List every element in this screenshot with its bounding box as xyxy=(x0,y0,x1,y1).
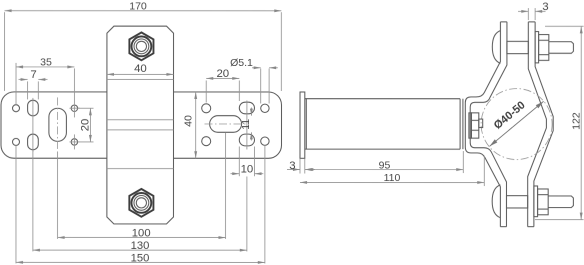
bolt bottom dome head xyxy=(492,185,500,218)
svg-text:40: 40 xyxy=(183,115,195,127)
screw at bracket washer xyxy=(469,113,472,138)
slot B bottom xyxy=(28,134,39,150)
svg-text:Ø40-50: Ø40-50 xyxy=(492,99,528,132)
dimension 40 right vertical xyxy=(182,92,195,158)
wire tube xyxy=(305,99,463,149)
wire strap right top end xyxy=(528,21,535,23)
hole D prime bottom xyxy=(202,137,211,146)
wire strap right bottom end xyxy=(528,226,534,228)
slot B top xyxy=(28,100,39,116)
svg-text:3: 3 xyxy=(542,1,548,13)
svg-text:170: 170 xyxy=(129,0,147,12)
svg-text:Ø5.1: Ø5.1 xyxy=(230,57,253,69)
hole D bottom circle xyxy=(69,134,79,149)
hole A top-left circle xyxy=(13,105,20,112)
nut bottom side view xyxy=(538,189,549,215)
dimension 110 xyxy=(300,156,484,187)
bolt top shaft end xyxy=(549,42,574,54)
svg-text:35: 35 xyxy=(40,56,52,68)
nut top hex xyxy=(129,32,153,60)
dimension 10 xyxy=(230,146,263,176)
dimension 100 xyxy=(58,227,226,239)
wire extension hole A prime to 150 dim xyxy=(264,145,266,263)
dimension 122 xyxy=(535,26,584,219)
dimension 150 xyxy=(16,252,265,264)
dimension 20 right xyxy=(206,68,239,102)
dimension 35 xyxy=(16,56,74,117)
nut top side view xyxy=(539,35,549,61)
svg-text:130: 130 xyxy=(131,240,150,252)
svg-text:20: 20 xyxy=(216,68,229,80)
wire clamp band upper edge across column xyxy=(107,119,174,121)
dimension 95 xyxy=(306,151,463,173)
hole D prime top xyxy=(202,104,211,113)
bolt top shaft xyxy=(507,41,528,53)
node C prime centerline horizontal xyxy=(205,123,248,125)
clamp strap right outer xyxy=(534,22,553,227)
slot B prime top xyxy=(239,102,254,114)
svg-text:3: 3 xyxy=(289,160,295,172)
dimension 3 top xyxy=(518,1,549,20)
wire extension slot B to 130 dim xyxy=(32,150,34,251)
bolt bottom shaft end xyxy=(548,196,573,208)
clamp strap left inner xyxy=(470,22,507,227)
node B prime centerline xyxy=(246,100,248,149)
dimension 11 xyxy=(240,107,252,140)
pipe circle dashed xyxy=(481,89,552,160)
clamp strap left outer xyxy=(465,22,500,227)
hole A bottom-left circle xyxy=(12,138,19,145)
wire extension slot C to 100 dim xyxy=(57,152,59,239)
dimension 40 column xyxy=(107,63,174,75)
svg-text:122: 122 xyxy=(570,112,582,130)
dimension diameter 5.1 xyxy=(230,57,278,104)
wire left view plate outline xyxy=(1,92,282,158)
node B centerline xyxy=(32,98,34,152)
svg-text:10: 10 xyxy=(241,163,254,175)
nut bottom hex xyxy=(129,189,153,217)
wire lower fold line across column xyxy=(107,168,174,170)
dimension diameter 40-50 leader xyxy=(489,99,543,146)
svg-text:7: 7 xyxy=(30,69,36,81)
dimension 170 xyxy=(5,0,282,91)
wire extension hole A to 150 dim xyxy=(15,145,17,263)
svg-text:40: 40 xyxy=(134,63,147,75)
washer top xyxy=(535,32,539,63)
slot B prime bottom xyxy=(239,134,254,146)
dimension 3 left xyxy=(287,158,315,173)
wire right view flange xyxy=(300,92,305,158)
wire central column xyxy=(107,26,174,224)
bolt bottom shaft xyxy=(506,196,527,208)
hole D top circle xyxy=(70,105,80,111)
slot C vertical obround xyxy=(49,108,67,141)
hole A prime top xyxy=(261,104,269,112)
screw at bracket hex head xyxy=(471,113,478,138)
washer bottom xyxy=(534,186,538,217)
node C centerline xyxy=(57,97,59,152)
slot C prime horizontal obround xyxy=(210,116,242,133)
dimension 7 xyxy=(19,69,48,100)
dimension 20 left vertical xyxy=(78,108,94,142)
svg-text:150: 150 xyxy=(131,252,150,264)
wire extension slot C prime to 100 dim xyxy=(225,132,227,239)
screw shaft tip xyxy=(479,119,483,128)
wire clamp band lower edge across column xyxy=(107,129,174,131)
wire extension slot B prime to 130 dim xyxy=(246,176,248,251)
svg-text:11: 11 xyxy=(240,119,252,130)
wire strap left bottom end xyxy=(500,226,506,228)
dimension 130 xyxy=(33,240,247,252)
wire strap left top end xyxy=(500,21,507,23)
hole A prime bottom xyxy=(261,137,269,145)
clamp strap right inner xyxy=(528,22,547,227)
svg-text:95: 95 xyxy=(379,160,391,172)
wire upper fold line across column xyxy=(107,79,174,81)
svg-text:100: 100 xyxy=(132,227,151,239)
svg-text:20: 20 xyxy=(80,119,92,132)
bolt top dome head xyxy=(492,31,500,64)
svg-text:110: 110 xyxy=(384,172,401,184)
